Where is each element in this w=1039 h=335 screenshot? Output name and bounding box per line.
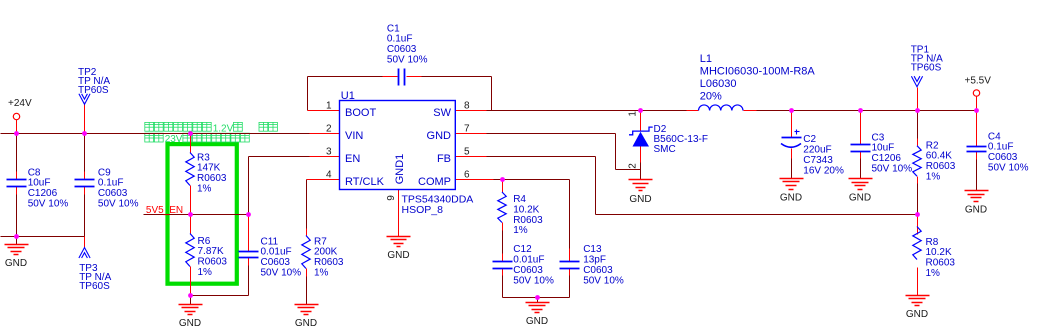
svg-text:60.4K: 60.4K (926, 151, 952, 162)
svg-text:0.1uF: 0.1uF (988, 142, 1014, 153)
svg-text:50V 10%: 50V 10% (98, 199, 139, 210)
svg-text:3: 3 (326, 147, 332, 158)
svg-text:GND: GND (427, 130, 452, 142)
svg-text:SMC: SMC (654, 144, 676, 155)
svg-text:13pF: 13pF (583, 255, 606, 266)
svg-text:R4: R4 (513, 194, 526, 205)
svg-text:C0603: C0603 (98, 188, 128, 199)
svg-text:GND: GND (5, 258, 27, 269)
svg-text:TP60S: TP60S (79, 281, 110, 292)
svg-text:1%: 1% (926, 172, 941, 183)
svg-text:6: 6 (464, 170, 470, 181)
svg-text:50V 10%: 50V 10% (872, 164, 913, 175)
svg-text:R0603: R0603 (926, 161, 956, 172)
svg-text:C0603: C0603 (513, 265, 543, 276)
svg-text:L1: L1 (700, 53, 712, 65)
svg-text:1%: 1% (926, 268, 941, 279)
svg-text:C13: C13 (583, 244, 602, 255)
svg-text:MHCI06030-100M-R8A: MHCI06030-100M-R8A (700, 65, 816, 77)
svg-text:R7: R7 (314, 236, 327, 247)
svg-text:R0603: R0603 (513, 215, 543, 226)
svg-text:10uF: 10uF (872, 143, 895, 154)
svg-text:+5.5V: +5.5V (965, 76, 992, 87)
svg-text:C11: C11 (261, 236, 279, 247)
svg-text:GND: GND (179, 318, 201, 329)
svg-text:0.01uF: 0.01uF (261, 247, 292, 258)
svg-text:GND: GND (295, 318, 317, 329)
svg-text:16V 20%: 16V 20% (803, 165, 844, 176)
svg-text:R3: R3 (197, 152, 210, 163)
svg-text:R2: R2 (926, 140, 939, 151)
svg-text:GND: GND (965, 204, 987, 215)
svg-text:R0603: R0603 (314, 257, 344, 268)
svg-text:GND: GND (387, 250, 409, 261)
svg-text:GND1: GND1 (394, 154, 406, 185)
svg-text:C2: C2 (803, 134, 816, 145)
svg-text:147K: 147K (197, 163, 221, 174)
svg-text:200K: 200K (314, 247, 338, 258)
svg-text:1: 1 (628, 111, 639, 117)
svg-text:C3: C3 (872, 132, 885, 143)
svg-text:50V 10%: 50V 10% (261, 268, 302, 279)
svg-text:50V 10%: 50V 10% (387, 55, 428, 66)
svg-text:23V: 23V (165, 134, 183, 145)
svg-text:C8: C8 (28, 167, 41, 178)
svg-text:R0603: R0603 (198, 257, 228, 268)
svg-text:L06030: L06030 (700, 78, 737, 90)
svg-text:R0603: R0603 (197, 173, 227, 184)
svg-text:220uF: 220uF (803, 145, 831, 156)
svg-text:1%: 1% (314, 268, 329, 279)
svg-text:EN: EN (345, 153, 360, 165)
svg-text:10.2K: 10.2K (513, 204, 539, 215)
svg-text:1.2V: 1.2V (213, 123, 234, 134)
svg-text:GND: GND (780, 192, 802, 203)
svg-text:RT/CLK: RT/CLK (345, 176, 385, 188)
svg-text:VIN: VIN (345, 130, 363, 142)
svg-text:C0603: C0603 (583, 265, 613, 276)
svg-text:C7343: C7343 (803, 155, 833, 166)
svg-text:C9: C9 (98, 167, 111, 178)
svg-text:5V5_EN: 5V5_EN (146, 205, 183, 216)
svg-text:C1206: C1206 (28, 188, 58, 199)
svg-text:SW: SW (433, 107, 451, 119)
svg-text:50V 10%: 50V 10% (513, 275, 554, 286)
svg-text:TP60S: TP60S (911, 63, 942, 74)
svg-text:HSOP_8: HSOP_8 (402, 204, 444, 216)
svg-text:GND: GND (629, 194, 651, 205)
svg-text:GND: GND (526, 316, 548, 327)
svg-text:C4: C4 (988, 131, 1001, 142)
svg-text:1%: 1% (197, 184, 212, 195)
svg-text:R6: R6 (198, 236, 211, 247)
svg-text:R0603: R0603 (926, 258, 956, 269)
svg-text:50V 10%: 50V 10% (583, 275, 624, 286)
svg-text:8: 8 (464, 101, 470, 112)
svg-text:GND: GND (849, 192, 871, 203)
svg-text:C0603: C0603 (988, 152, 1018, 163)
svg-text:C1: C1 (387, 23, 400, 34)
svg-text:50V 10%: 50V 10% (988, 163, 1029, 174)
svg-text:2: 2 (628, 163, 639, 169)
svg-text:10uF: 10uF (28, 178, 51, 189)
svg-text:7.87K: 7.87K (198, 246, 224, 257)
svg-text:7: 7 (464, 124, 470, 135)
svg-text:TP60S: TP60S (78, 85, 109, 96)
svg-text:1: 1 (326, 101, 332, 112)
svg-text:1%: 1% (198, 267, 213, 278)
svg-text:+24V: +24V (8, 98, 32, 109)
svg-text:C0603: C0603 (261, 257, 291, 268)
svg-text:5: 5 (464, 147, 470, 158)
svg-text:10.2K: 10.2K (926, 247, 952, 258)
svg-text:C1206: C1206 (872, 153, 902, 164)
svg-text:9: 9 (386, 195, 397, 201)
svg-text:BOOT: BOOT (345, 107, 376, 119)
svg-text:4: 4 (326, 170, 332, 181)
svg-text:U1: U1 (341, 90, 355, 102)
svg-text:FB: FB (437, 153, 451, 165)
svg-text:50V 10%: 50V 10% (28, 199, 69, 210)
svg-text:C12: C12 (513, 244, 532, 255)
svg-text:0.1uF: 0.1uF (387, 34, 413, 45)
svg-text:R8: R8 (926, 237, 939, 248)
svg-text:0.01uF: 0.01uF (513, 255, 544, 266)
svg-text:COMP: COMP (418, 176, 451, 188)
svg-text:1%: 1% (513, 225, 528, 236)
svg-text:C0603: C0603 (387, 44, 417, 55)
svg-text:GND: GND (906, 309, 928, 320)
svg-text:20%: 20% (700, 90, 722, 102)
svg-text:0.1uF: 0.1uF (98, 178, 124, 189)
svg-text:2: 2 (326, 124, 332, 135)
